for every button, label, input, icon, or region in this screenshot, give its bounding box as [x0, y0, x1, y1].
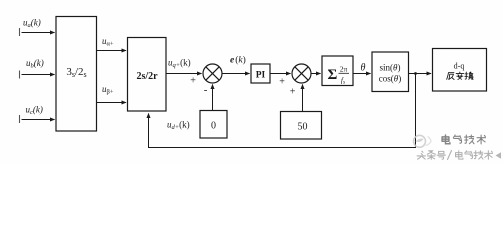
- svg-text:-: -: [204, 84, 208, 96]
- svg-text:θ: θ: [361, 63, 366, 74]
- svg-text:cos(θ): cos(θ): [379, 74, 401, 84]
- svg-text:Σ: Σ: [328, 67, 338, 83]
- svg-text:+: +: [290, 86, 296, 97]
- svg-text:ub(k): ub(k): [26, 58, 44, 70]
- svg-text:uc(k): uc(k): [26, 105, 43, 117]
- svg-text:ud+(k): ud+(k): [167, 119, 190, 131]
- svg-text:d-q: d-q: [454, 61, 465, 70]
- svg-text:ua(k): ua(k): [23, 18, 41, 30]
- svg-text:2π: 2π: [340, 65, 348, 74]
- svg-text:PI: PI: [256, 71, 266, 81]
- svg-text:2s/2r: 2s/2r: [136, 71, 158, 82]
- svg-text:e(k): e(k): [230, 55, 246, 66]
- svg-text:uq+(k): uq+(k): [168, 57, 191, 69]
- svg-text:+: +: [279, 77, 285, 88]
- svg-text:+: +: [190, 76, 196, 87]
- svg-text:50: 50: [298, 122, 308, 133]
- svg-text:0: 0: [211, 121, 216, 132]
- svg-text:sin(θ): sin(θ): [380, 63, 401, 73]
